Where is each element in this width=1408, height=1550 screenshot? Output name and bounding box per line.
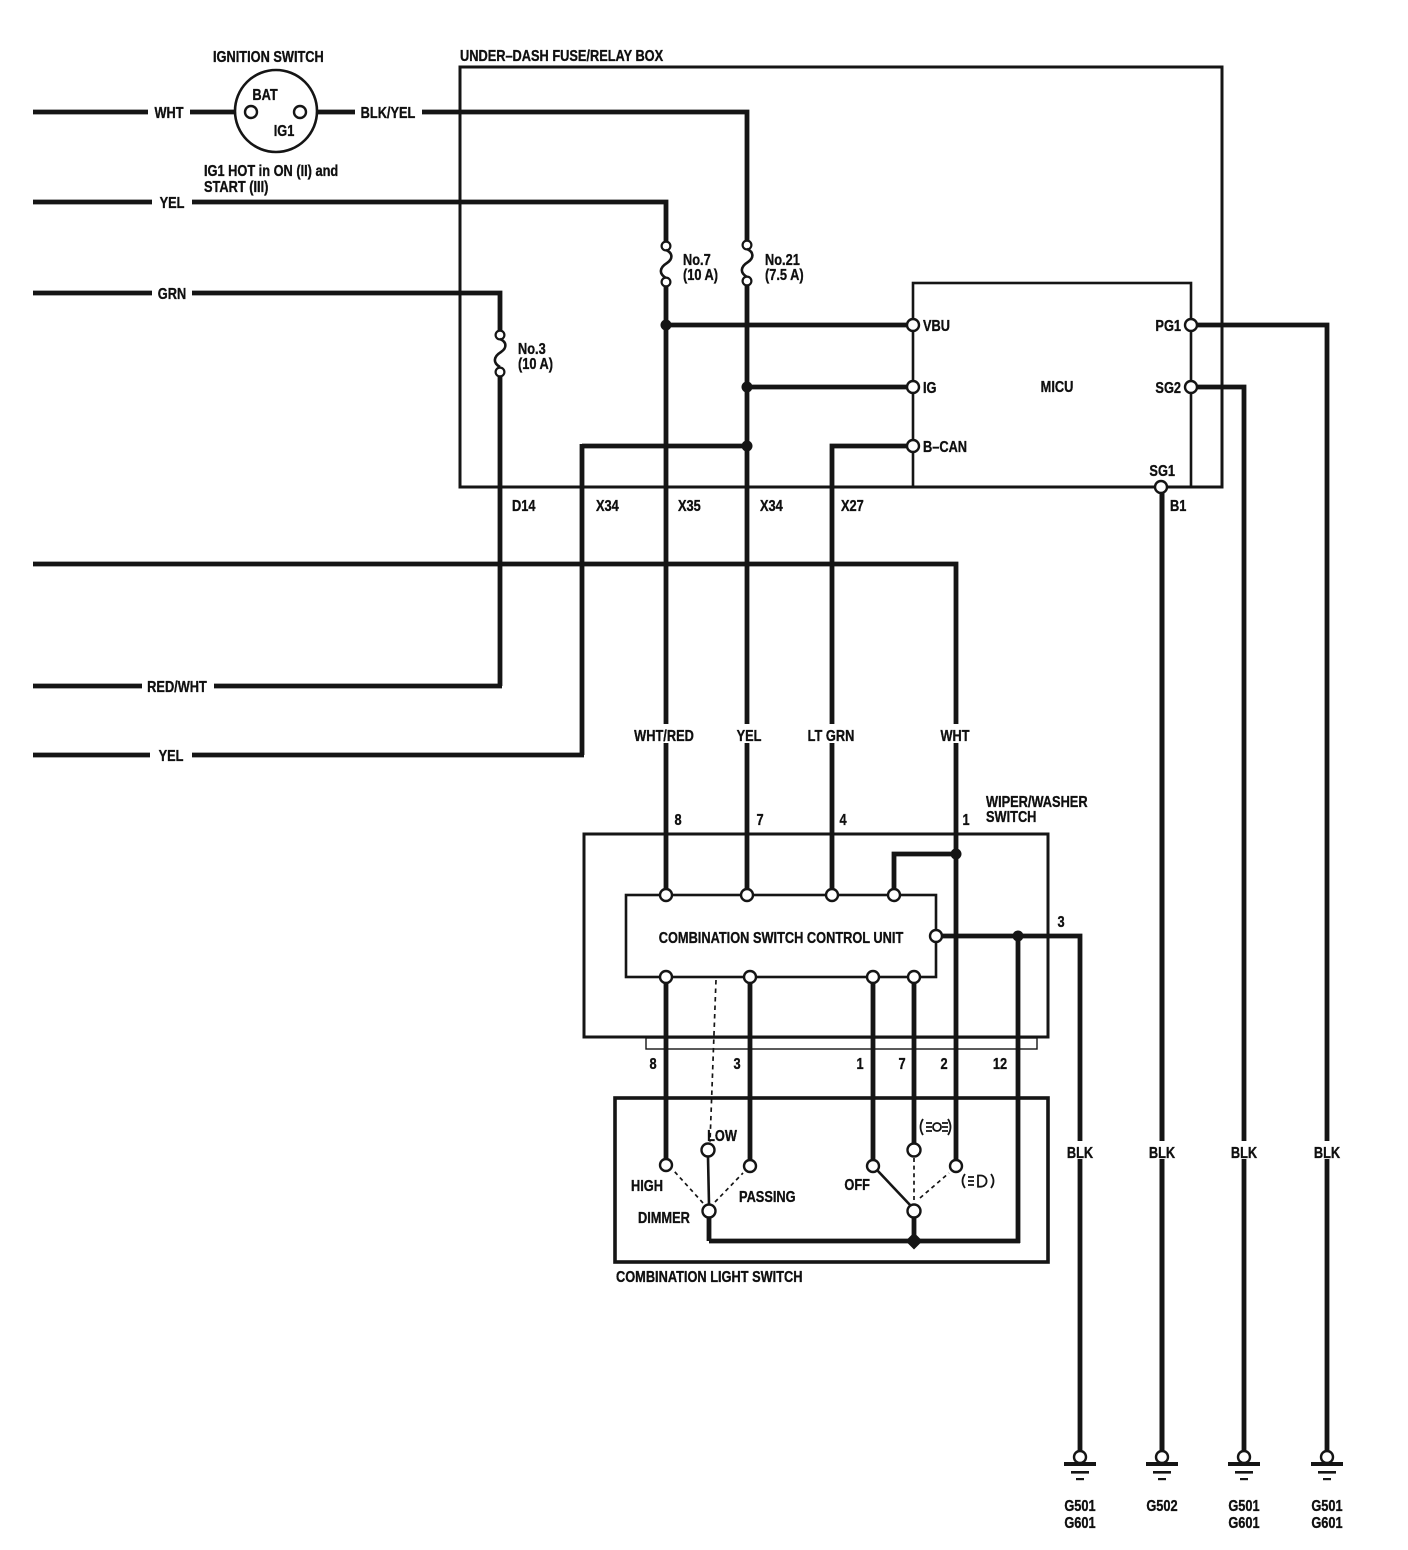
svg-text:LT GRN: LT GRN [808, 728, 855, 746]
ignition switch body [235, 70, 317, 152]
wire PG1 from MICU to right then down (BLK ground run) [1197, 325, 1327, 1451]
svg-text:BLK: BLK [1231, 1145, 1258, 1163]
svg-text:B1: B1 [1170, 498, 1186, 516]
small light symbol [921, 1119, 951, 1135]
wire light switch common stub down to bottom rail [912, 1217, 917, 1241]
svg-text:VBU: VBU [923, 318, 950, 336]
under-dash fuse/relay box outline [460, 67, 1222, 487]
svg-text:8: 8 [674, 812, 681, 830]
MICU pin B-CAN [907, 440, 919, 452]
ground G502 [1146, 1451, 1178, 1480]
svg-text:X35: X35 [678, 498, 701, 516]
wire YEL from left into fuse box to fuse No.7 [33, 202, 666, 242]
wire LOW dimmer common stub down to bottom rail [707, 1217, 712, 1241]
contact OFF [867, 1160, 879, 1172]
svg-text:UNDER–DASH FUSE/RELAY BOX: UNDER–DASH FUSE/RELAY BOX [460, 48, 663, 66]
wire 3 from control unit right pin to BLK ground run [942, 936, 1080, 1451]
wire control unit pin 8 down to HIGH contact [664, 981, 669, 1160]
wiper/washer switch box [584, 834, 1048, 1037]
svg-text:G501: G501 [1311, 1498, 1342, 1516]
svg-text:WHT: WHT [940, 728, 969, 746]
label LT GRN wire [803, 724, 861, 745]
head light symbol [963, 1174, 994, 1188]
contact HIGH [660, 1159, 672, 1171]
svg-text:D14: D14 [512, 498, 535, 516]
svg-text:YEL: YEL [160, 195, 185, 213]
label BLK wire 3 run [1062, 1141, 1099, 1162]
svg-text:12: 12 [993, 1056, 1007, 1074]
light switch dashed arm common to small light contact [913, 1158, 915, 1203]
wire X34 column down to YEL stub [580, 444, 585, 755]
svg-text:3: 3 [1057, 914, 1064, 932]
dashed mechanical link control unit to LOW contact [710, 980, 716, 1142]
control unit bottom pin c [867, 971, 879, 983]
fuse No.3 (10 A) [496, 331, 505, 340]
dimmer switch dashed arm common to PASSING [715, 1173, 743, 1202]
svg-text:PG1: PG1 [1155, 318, 1181, 336]
svg-text:IGNITION SWITCH: IGNITION SWITCH [213, 49, 324, 67]
svg-text:COMBINATION SWITCH CONTROL UNI: COMBINATION SWITCH CONTROL UNIT [659, 930, 904, 948]
label WHT/RED wire [630, 724, 698, 745]
wire control unit pin 1 jog up to WHT line junction [894, 854, 956, 891]
svg-text:RED/WHT: RED/WHT [147, 679, 207, 697]
svg-text:MICU: MICU [1041, 379, 1074, 397]
label YEL ignition feed [152, 194, 192, 212]
svg-text:PASSING: PASSING [739, 1189, 796, 1207]
contact LOW [702, 1144, 715, 1157]
wire X34 branch horizontal from node to left corner [582, 444, 747, 449]
svg-text:BLK: BLK [1067, 1145, 1094, 1163]
svg-text:BLK/YEL: BLK/YEL [361, 105, 416, 123]
ground G501/G601 third [1311, 1451, 1343, 1480]
light switch arm OFF to common (solid) [877, 1170, 911, 1206]
svg-text:7: 7 [898, 1056, 905, 1074]
svg-text:G601: G601 [1064, 1515, 1095, 1533]
svg-text:(7.5 A): (7.5 A) [765, 267, 804, 285]
junction node fuse No.7 / VBU [661, 320, 672, 331]
control unit bottom pin d [908, 971, 920, 983]
svg-text:X34: X34 [596, 498, 619, 516]
svg-text:LOW: LOW [707, 1128, 737, 1146]
svg-text:G501: G501 [1228, 1498, 1259, 1516]
svg-text:IG1: IG1 [274, 123, 295, 141]
MICU pin SG2 [1185, 381, 1197, 393]
svg-text:IG: IG [923, 380, 937, 398]
MICU box U1 [913, 283, 1191, 487]
svg-text:GRN: GRN [158, 286, 186, 304]
wire control unit pin 3 down to PASSING contact [748, 981, 753, 1161]
label RED/WHT [142, 678, 214, 696]
svg-text:DIMMER: DIMMER [638, 1210, 690, 1228]
contact small light [908, 1144, 921, 1157]
svg-text:4: 4 [839, 812, 846, 830]
connector strip under wiper/washer switch [646, 1038, 1037, 1049]
svg-text:2: 2 [940, 1056, 947, 1074]
combination switch control unit box [626, 895, 936, 977]
control unit bottom pin b [744, 971, 756, 983]
wire GRN from left to fuse No.3 [33, 293, 500, 331]
combination light switch box [615, 1098, 1048, 1262]
svg-text:WHT: WHT [154, 105, 183, 123]
svg-text:SWITCH: SWITCH [986, 809, 1036, 827]
wire WHT long feed to wiper/washer switch pin 1 [33, 564, 956, 1160]
svg-text:8: 8 [649, 1056, 656, 1074]
control unit top pin b [741, 889, 753, 901]
svg-text:BLK: BLK [1314, 1145, 1341, 1163]
wire WHT from left to ignition switch BAT [33, 110, 245, 115]
svg-text:(10 A): (10 A) [683, 267, 718, 285]
wire B-CAN from MICU pin left then down through X27 to control unit pin 4 [832, 446, 908, 891]
svg-text:G501: G501 [1064, 1498, 1095, 1516]
control unit top pin d [888, 889, 900, 901]
label WHT top feed [148, 104, 190, 122]
dimmer switch arm LOW to common (solid) [708, 1157, 709, 1204]
wire SG1/B1 from MICU bottom down (BLK ground run) [1160, 492, 1165, 1451]
junction node fuse No.21 / IG [742, 382, 753, 393]
label YEL lower stub [150, 747, 192, 765]
control unit bottom pin a [660, 971, 672, 983]
svg-text:START (III): START (III) [204, 179, 269, 197]
ground G501/G601 first [1064, 1451, 1096, 1480]
svg-text:COMBINATION LIGHT SWITCH: COMBINATION LIGHT SWITCH [616, 1269, 803, 1287]
control unit top pin a [660, 889, 672, 901]
wire fuse No.7 output down through X35 to control unit pin 8 [664, 285, 669, 891]
label GRN [152, 285, 192, 303]
label BLK/YEL [355, 104, 422, 122]
label BLK PG1 run [1309, 1141, 1346, 1162]
ground G501/G601 second [1228, 1451, 1260, 1480]
svg-text:HIGH: HIGH [631, 1178, 663, 1196]
junction node wire 3 / wire 12 [1013, 931, 1024, 942]
svg-text:BLK: BLK [1149, 1145, 1176, 1163]
svg-text:G601: G601 [1311, 1515, 1342, 1533]
svg-text:1: 1 [856, 1056, 863, 1074]
control unit top pin c [826, 889, 838, 901]
svg-text:SG2: SG2 [1155, 380, 1181, 398]
junction node fuse No.21 column / X34 branch [742, 441, 753, 452]
svg-text:G601: G601 [1228, 1515, 1259, 1533]
MICU pin IG [907, 381, 919, 393]
wire light switch bottom rail [709, 1239, 1020, 1244]
svg-text:(10 A): (10 A) [518, 356, 553, 374]
svg-text:BAT: BAT [252, 87, 277, 105]
svg-text:YEL: YEL [737, 728, 762, 746]
wire YEL stub lower left [33, 753, 584, 758]
fuse No.7 (10 A) [662, 242, 671, 251]
svg-text:G502: G502 [1146, 1498, 1177, 1516]
label BLK SG1 run [1144, 1141, 1181, 1162]
svg-text:X34: X34 [760, 498, 783, 516]
svg-text:3: 3 [733, 1056, 740, 1074]
svg-text:OFF: OFF [844, 1177, 870, 1195]
wire IG from fuse No.21 column to MICU IG pin [747, 385, 908, 390]
svg-text:SG1: SG1 [1149, 463, 1175, 481]
wire 12 from node on wire 3 down to light switch bottom rail [1016, 936, 1021, 1243]
wire fuse No.3 output down to RED/WHT (connector D14) [498, 376, 503, 686]
wire control unit pin 7 down to small light contact [912, 981, 917, 1144]
control unit right pin [930, 930, 942, 942]
fuse No.21 (7.5 A) [743, 241, 752, 250]
svg-text:7: 7 [756, 812, 763, 830]
svg-text:B–CAN: B–CAN [923, 439, 967, 457]
wire VBU from fuse No.7 node to MICU VBU pin [666, 323, 908, 328]
MICU pin PG1 [1185, 319, 1197, 331]
light switch dashed arm common to head light contact [920, 1173, 949, 1198]
svg-text:YEL: YEL [159, 748, 184, 766]
label BLK SG2 run [1226, 1141, 1263, 1162]
contact PASSING [744, 1160, 756, 1172]
wire control unit pin 1 down to OFF contact [871, 981, 876, 1161]
wire fuse No.21 output down through X34 to control unit pin 7 [745, 285, 750, 891]
dimmer common contact [703, 1205, 716, 1218]
wire RED/WHT from left to connector D14 column [33, 684, 502, 689]
svg-text:1: 1 [962, 812, 969, 830]
junction node WHT line / control unit pin 1 jog [951, 849, 962, 860]
MICU pin VBU [907, 319, 919, 331]
light switch common contact [908, 1205, 921, 1218]
ignition switch terminal BAT [245, 106, 257, 118]
label WHT wire [936, 724, 976, 745]
wire SG2 from MICU to right then down (BLK ground run) [1197, 387, 1244, 1451]
label YEL wire [732, 724, 766, 745]
svg-text:X27: X27 [841, 498, 864, 516]
dimmer switch dashed arm common to HIGH [674, 1171, 703, 1203]
wire BLK/YEL from ignition switch IG1 into fuse box, down to fuse No.21 [306, 112, 747, 241]
MICU pin SG1 [1155, 481, 1167, 493]
ignition switch terminal IG1 [294, 106, 306, 118]
junction node light switch common / bottom rail [906, 1233, 923, 1250]
contact head light [950, 1160, 962, 1172]
svg-text:WHT/RED: WHT/RED [634, 728, 694, 746]
